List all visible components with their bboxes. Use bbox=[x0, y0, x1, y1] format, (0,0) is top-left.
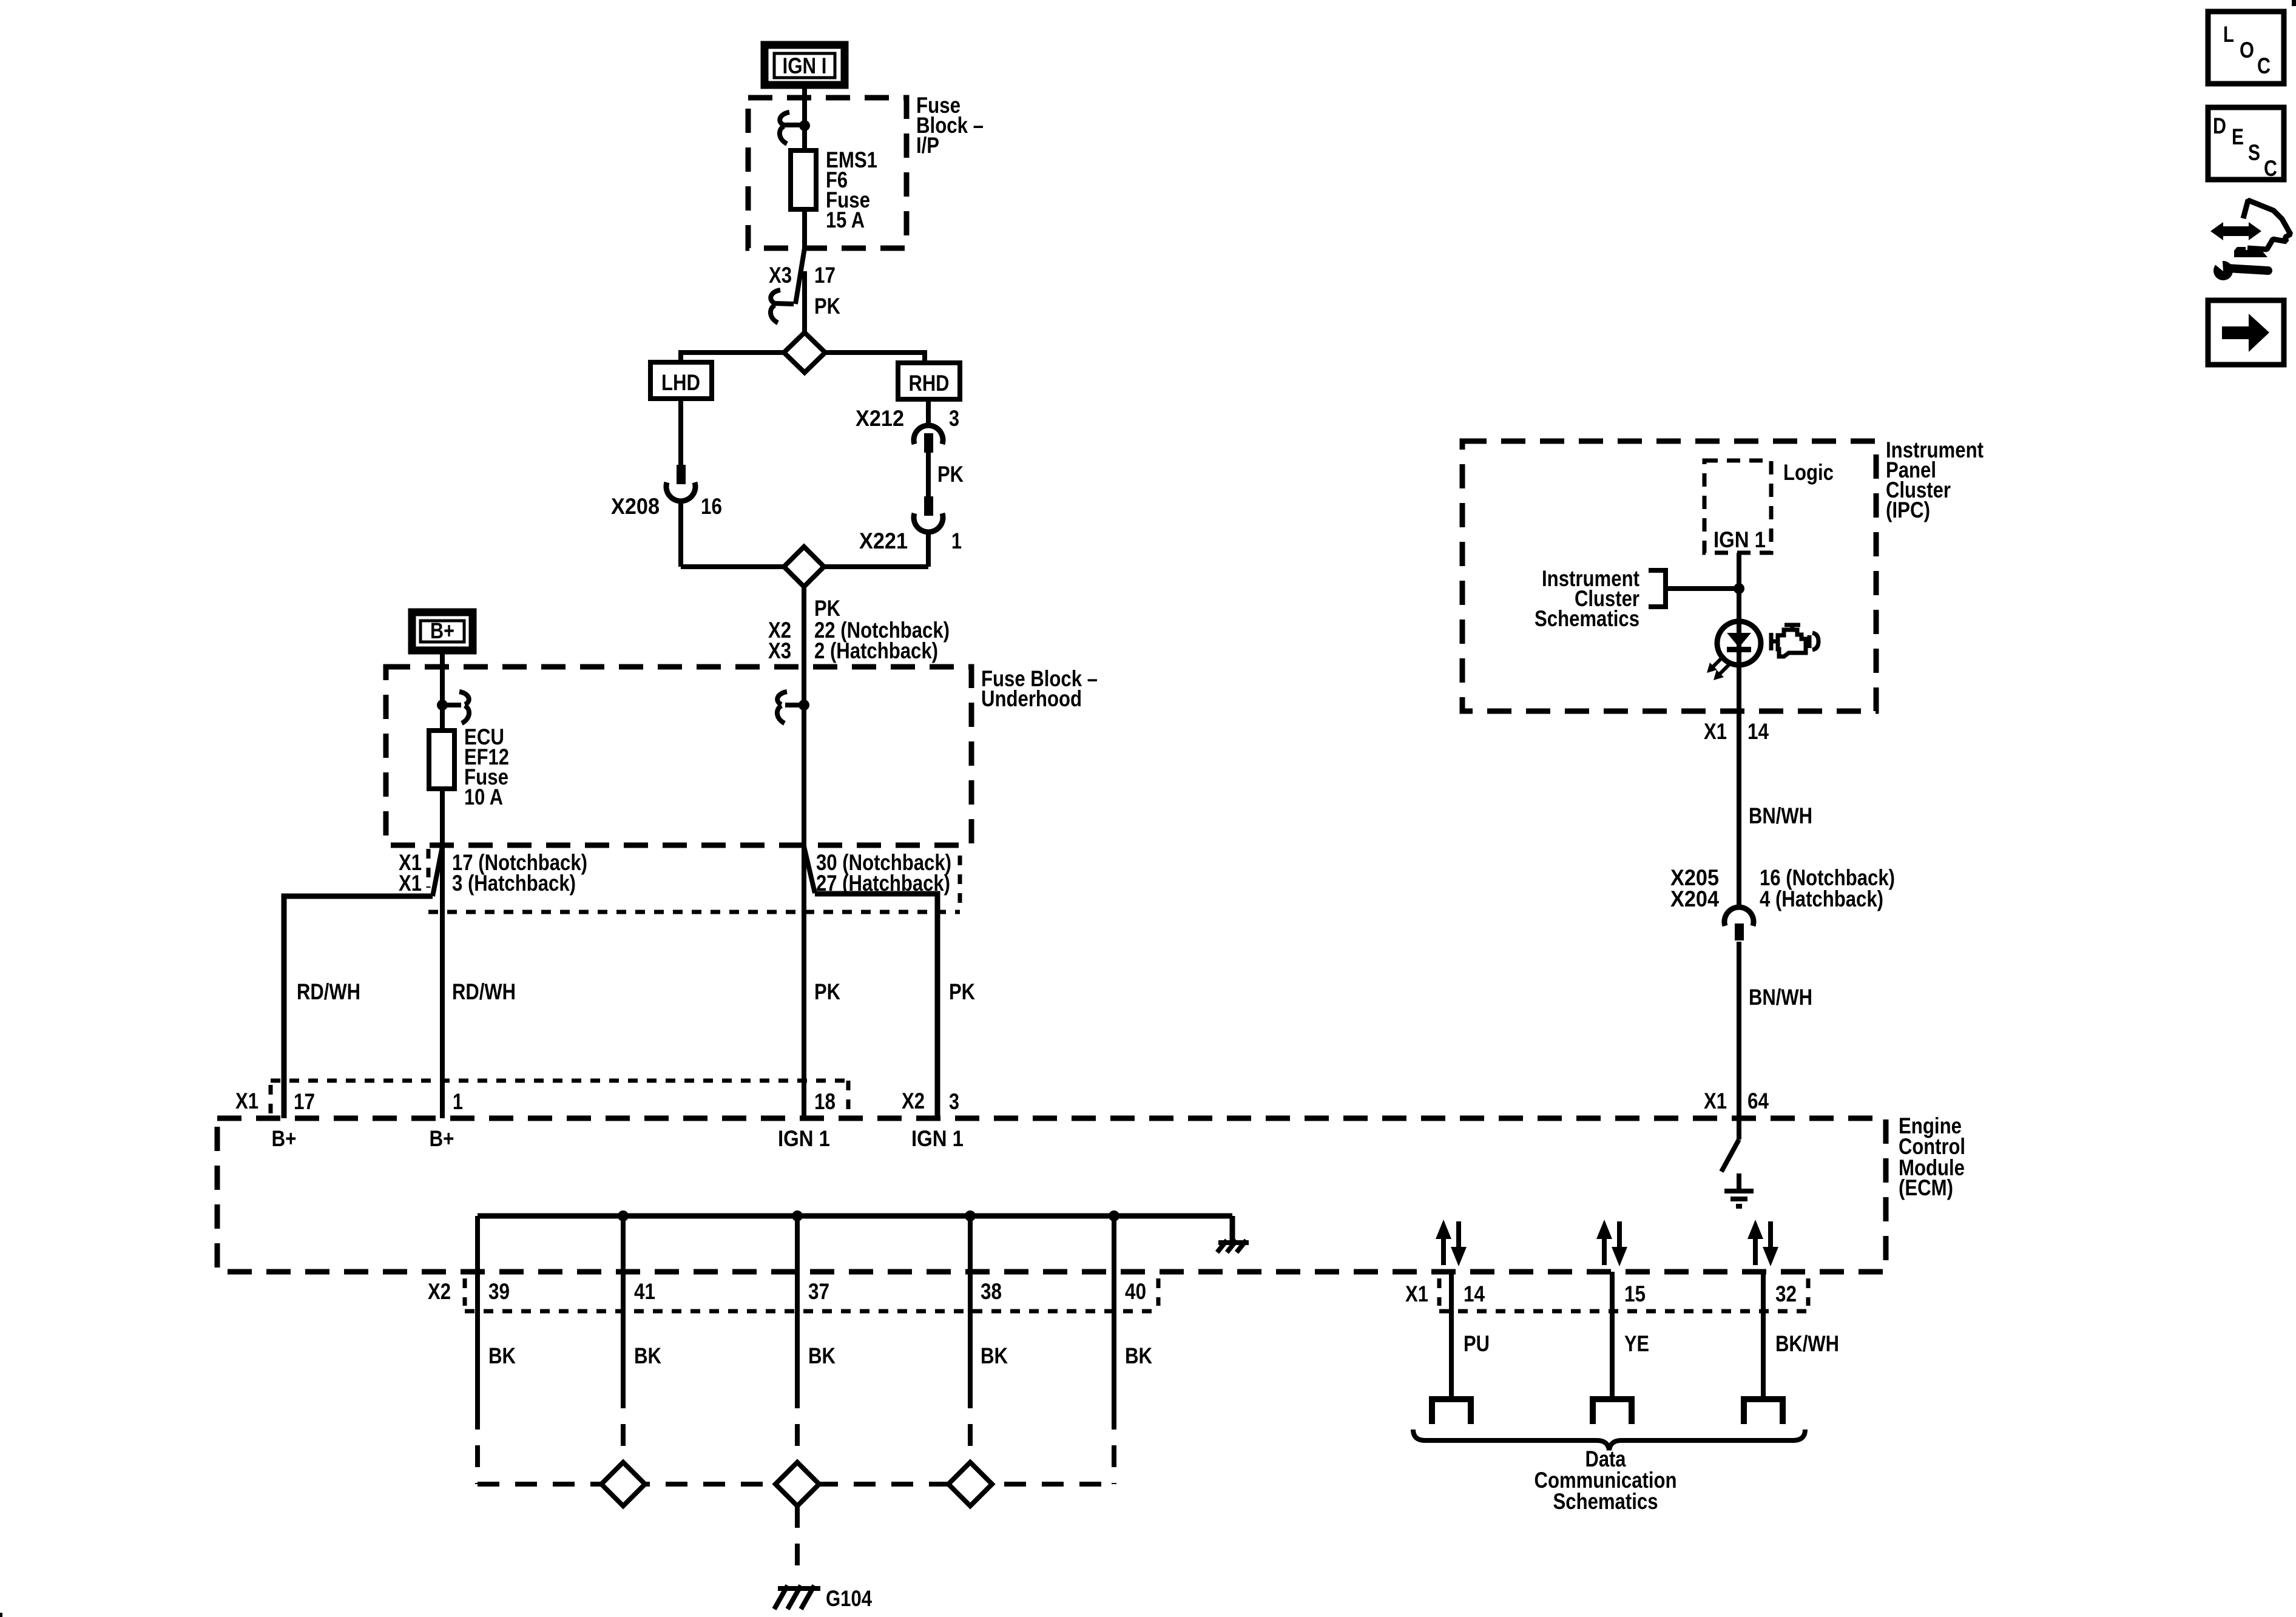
svg-text:2 (Hatchback): 2 (Hatchback) bbox=[814, 638, 938, 663]
data link arrows pin 32 bbox=[1747, 1220, 1778, 1266]
wire LHD down bbox=[678, 399, 683, 467]
wire pin 38 BK bbox=[968, 1216, 973, 1386]
wire PK to splice bbox=[805, 271, 840, 334]
clip terminal on PK feed bbox=[777, 692, 809, 723]
LHD option box bbox=[650, 362, 712, 399]
svg-text:S: S bbox=[2248, 140, 2260, 165]
connector X221 pin 1 bbox=[859, 496, 962, 553]
svg-text:38: 38 bbox=[981, 1279, 1002, 1304]
data link arrows pin 14 bbox=[1436, 1220, 1467, 1266]
svg-text:BK: BK bbox=[1125, 1343, 1152, 1368]
splice diamond S3 bbox=[948, 1462, 992, 1506]
separator left connector strip bbox=[427, 849, 431, 888]
svg-text:G104: G104 bbox=[826, 1586, 872, 1611]
indicator LED MIL bbox=[1707, 621, 1761, 680]
separator right connector strip bbox=[958, 856, 962, 912]
svg-text:18: 18 bbox=[814, 1089, 836, 1114]
svg-text:BK: BK bbox=[488, 1343, 516, 1368]
svg-text:IGN 1: IGN 1 bbox=[778, 1126, 830, 1151]
instrument panel cluster dashed box bbox=[1462, 441, 1876, 711]
fuse block underhood dashed box bbox=[386, 667, 971, 845]
svg-text:PK: PK bbox=[949, 979, 975, 1004]
svg-text:IGN 1: IGN 1 bbox=[1714, 527, 1766, 552]
svg-text:X1: X1 bbox=[1405, 1281, 1428, 1306]
wire labels BK bbox=[488, 1343, 1152, 1368]
svg-text:X204: X204 bbox=[1670, 886, 1719, 911]
icon double arrow with connector tool bbox=[2207, 200, 2291, 280]
label Instrument Cluster Schematics bbox=[1535, 566, 1639, 631]
connector strip X1 top of ECM bbox=[271, 1081, 848, 1115]
connector strip X1 bottom of ECM bbox=[1439, 1278, 1808, 1311]
svg-text:B+: B+ bbox=[272, 1126, 297, 1151]
splice diamond upper bbox=[784, 333, 825, 373]
svg-text:Logic: Logic bbox=[1783, 460, 1834, 485]
svg-text:41: 41 bbox=[634, 1279, 655, 1304]
svg-text:64: 64 bbox=[1747, 1089, 1769, 1113]
brace data communication bbox=[1413, 1430, 1805, 1450]
svg-text:PU: PU bbox=[1464, 1331, 1490, 1356]
wire to bracket bbox=[1666, 586, 1739, 591]
wire splice to RHD bbox=[825, 353, 925, 363]
svg-text:X2: X2 bbox=[902, 1089, 925, 1113]
fuse EMS1 F6 15A bbox=[791, 147, 877, 232]
icon box DESC bbox=[2208, 107, 2284, 181]
svg-text:17: 17 bbox=[294, 1089, 315, 1114]
svg-text:Underhood: Underhood bbox=[981, 686, 1082, 711]
wire lower splice joins bbox=[681, 564, 784, 569]
connector X205/X204 symbol bbox=[1724, 907, 1754, 940]
wire LED to IPC connector bbox=[1737, 665, 1741, 908]
svg-text:B+: B+ bbox=[430, 1126, 454, 1151]
svg-text:C: C bbox=[2257, 53, 2271, 78]
label Fuse Block I/P bbox=[916, 93, 984, 158]
label Engine Control Module (ECM) bbox=[1899, 1113, 1965, 1200]
chassis ground symbol bbox=[1217, 1240, 1249, 1252]
connector X1 pin labels left bbox=[399, 850, 587, 896]
connector X1 pin 14 labels IPC bbox=[1704, 719, 1769, 744]
connector pin diagonal with clip bbox=[771, 248, 805, 323]
connector X212 pin 3 bbox=[856, 406, 959, 453]
svg-text:BN/WH: BN/WH bbox=[1749, 985, 1812, 1010]
svg-text:RD/WH: RD/WH bbox=[297, 979, 360, 1004]
wire fuse EF12 down bbox=[440, 789, 445, 1118]
wire pin 32 BK/WH bbox=[1763, 1272, 1839, 1399]
svg-text:4 (Hatchback): 4 (Hatchback) bbox=[1760, 886, 1883, 911]
wire PK between connectors bbox=[928, 453, 964, 498]
wire X208 to lower splice bbox=[678, 500, 683, 567]
svg-text:X3: X3 bbox=[769, 263, 792, 288]
wire pin 15 YE bbox=[1612, 1272, 1649, 1399]
bracket instrument cluster schematics bbox=[1649, 570, 1666, 607]
connector X1 pin 64 labels bbox=[1704, 1089, 1769, 1113]
svg-text:RD/WH: RD/WH bbox=[452, 979, 516, 1004]
engine control module dashed box bbox=[217, 1118, 1886, 1272]
svg-text:X2: X2 bbox=[428, 1279, 451, 1304]
signal ground inside ECM bbox=[1724, 1173, 1754, 1206]
splice diamond S2 bbox=[775, 1462, 819, 1506]
svg-text:L: L bbox=[2223, 22, 2234, 47]
wire X221 to lower splice bbox=[926, 532, 931, 567]
dashed wire to G104 bbox=[795, 1506, 800, 1579]
label Instrument Panel Cluster (IPC) bbox=[1886, 437, 1984, 522]
svg-text:Schematics: Schematics bbox=[1553, 1489, 1658, 1514]
engine icon bbox=[1771, 625, 1818, 657]
svg-text:C: C bbox=[2264, 156, 2277, 181]
svg-text:X208: X208 bbox=[611, 494, 660, 519]
dashed ground bus lower bbox=[478, 1482, 1114, 1487]
icon box arrow bbox=[2208, 300, 2284, 365]
off-page terminal pin 32 bbox=[1744, 1399, 1783, 1424]
svg-text:PK: PK bbox=[814, 596, 840, 621]
svg-text:16: 16 bbox=[701, 494, 722, 519]
connector X2/X3 labels at underhood top bbox=[768, 618, 950, 663]
ground G104 bbox=[774, 1585, 872, 1611]
svg-text:15 A: 15 A bbox=[826, 208, 865, 232]
fuse block I/P dashed box bbox=[748, 98, 907, 248]
svg-text:PK: PK bbox=[937, 462, 964, 487]
wire pin 37 BK bbox=[795, 1216, 800, 1386]
label Fuse Block Underhood bbox=[981, 666, 1098, 711]
svg-text:37: 37 bbox=[808, 1279, 829, 1304]
wire B+ into underhood block bbox=[440, 650, 445, 733]
connector X205/X204 labels bbox=[1670, 865, 1895, 911]
icon box LOC bbox=[2208, 12, 2284, 84]
svg-text:1: 1 bbox=[453, 1089, 463, 1114]
svg-text:YE: YE bbox=[1624, 1331, 1649, 1356]
svg-text:BK/WH: BK/WH bbox=[1775, 1331, 1839, 1356]
svg-text:D: D bbox=[2213, 113, 2226, 138]
svg-text:E: E bbox=[2232, 124, 2244, 149]
data link arrows pin 15 bbox=[1596, 1220, 1627, 1266]
svg-text:PK: PK bbox=[814, 979, 840, 1004]
wire to ECM X1 64 bbox=[1737, 942, 1741, 1139]
dashed ground wires to splices bbox=[478, 1386, 1114, 1484]
connector pin labels right bbox=[816, 850, 951, 896]
wire branch to ECM pin 3 bbox=[815, 894, 937, 1118]
pin labels ECM bottom left bbox=[428, 1279, 1146, 1304]
svg-text:IGN 1: IGN 1 bbox=[911, 1126, 964, 1151]
svg-text:Schematics: Schematics bbox=[1535, 606, 1639, 631]
svg-text:BN/WH: BN/WH bbox=[1749, 803, 1812, 828]
pin labels ECM bottom right bbox=[1405, 1281, 1797, 1306]
label Data Communication Schematics bbox=[1535, 1447, 1677, 1514]
wire logic to LED bbox=[1737, 553, 1741, 623]
svg-text:X221: X221 bbox=[859, 528, 908, 553]
svg-text:32: 32 bbox=[1775, 1281, 1797, 1306]
wire PK splice to fuse block underhood bbox=[804, 587, 840, 1118]
svg-text:BK: BK bbox=[808, 1343, 836, 1368]
net labels inside ECM bbox=[272, 1126, 964, 1151]
connector X1 pin 17/3 diagonal bbox=[433, 846, 442, 896]
wire branch to ECM pin 17 bbox=[284, 896, 433, 1118]
logic dashed box bbox=[1704, 461, 1771, 553]
splice diamond S1 bbox=[601, 1462, 645, 1506]
svg-text:X3: X3 bbox=[768, 638, 791, 663]
node junctions on ground bus bbox=[618, 1210, 1119, 1221]
pin labels ECM top bbox=[235, 1089, 959, 1114]
svg-text:PK: PK bbox=[814, 294, 840, 319]
svg-text:O: O bbox=[2240, 38, 2254, 62]
svg-text:1: 1 bbox=[951, 528, 962, 553]
svg-text:3 (Hatchback): 3 (Hatchback) bbox=[452, 871, 576, 896]
svg-text:3: 3 bbox=[949, 1089, 959, 1114]
svg-text:3: 3 bbox=[949, 406, 959, 431]
connector X1 pin 30/27 diagonal bbox=[804, 846, 815, 893]
wire pin 14 PU bbox=[1451, 1272, 1490, 1399]
svg-text:IGN I: IGN I bbox=[783, 53, 827, 78]
wire pin 39 BK bbox=[475, 1216, 480, 1408]
clip terminal on B+ feed bbox=[437, 692, 469, 723]
power feed tag B+ bbox=[412, 612, 473, 650]
bus to chassis ground bbox=[1230, 1216, 1235, 1241]
page mark top right bbox=[2292, 0, 2296, 6]
connector strip bottom underhood bbox=[428, 910, 960, 914]
connector X3 pin 17 labels bbox=[769, 263, 836, 288]
wire RHD down bbox=[926, 399, 931, 425]
svg-text:RHD: RHD bbox=[909, 371, 950, 396]
ground bus inside ECM bbox=[478, 1214, 1232, 1219]
svg-text:15: 15 bbox=[1624, 1281, 1646, 1306]
fuse ECU EF12 10A bbox=[429, 724, 509, 809]
clip terminal in fuse block I/P bbox=[780, 112, 810, 144]
off-page terminal pin 14 bbox=[1432, 1399, 1471, 1424]
off-page terminal pin 15 bbox=[1593, 1399, 1632, 1424]
wire splice to LHD bbox=[681, 353, 784, 362]
switch inside ECM bbox=[1721, 1139, 1739, 1172]
svg-text:B+: B+ bbox=[430, 618, 454, 643]
wire pin 40 BK bbox=[1112, 1216, 1116, 1408]
svg-text:BK: BK bbox=[981, 1343, 1008, 1368]
svg-text:40: 40 bbox=[1125, 1279, 1146, 1304]
wire fuse to connector X3 bbox=[802, 209, 807, 249]
svg-text:10 A: 10 A bbox=[464, 785, 503, 809]
svg-text:X1: X1 bbox=[1704, 1089, 1727, 1113]
svg-text:(ECM): (ECM) bbox=[1899, 1175, 1953, 1200]
svg-text:X1: X1 bbox=[399, 871, 422, 896]
svg-text:BK: BK bbox=[634, 1343, 661, 1368]
page mark bottom left bbox=[0, 1613, 2, 1617]
splice diamond lower bbox=[784, 547, 824, 587]
svg-text:(IPC): (IPC) bbox=[1886, 498, 1930, 522]
wire IGN I to fuse block I/P bbox=[802, 89, 807, 153]
svg-text:14: 14 bbox=[1464, 1281, 1485, 1306]
svg-text:39: 39 bbox=[488, 1279, 510, 1304]
svg-text:X1: X1 bbox=[235, 1089, 258, 1113]
RHD option box bbox=[898, 363, 960, 399]
svg-text:17: 17 bbox=[814, 263, 836, 288]
node junction to instrument cluster schematics bbox=[1734, 583, 1744, 594]
svg-text:14: 14 bbox=[1747, 719, 1769, 744]
svg-text:X212: X212 bbox=[856, 406, 904, 431]
wire bbox=[824, 564, 928, 569]
svg-text:X1: X1 bbox=[1704, 719, 1727, 744]
connector X208 pin 16 bbox=[611, 465, 722, 519]
connector strip X2 bottom of ECM bbox=[465, 1278, 1158, 1311]
svg-text:I/P: I/P bbox=[916, 133, 939, 158]
power feed tag IGN I bbox=[765, 45, 845, 85]
wire pin 41 BK bbox=[621, 1216, 626, 1386]
svg-text:LHD: LHD bbox=[661, 370, 700, 395]
